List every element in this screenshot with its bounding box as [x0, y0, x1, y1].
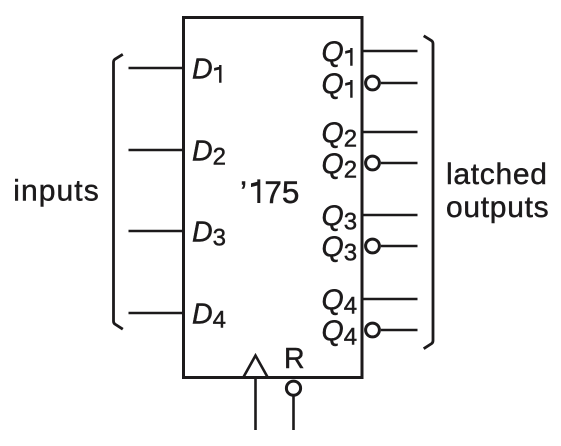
IC body U1 ('175 quad D flip-flop)	[184, 18, 363, 378]
wire Q1 output	[362, 50, 418, 52]
svg-text:Q: Q	[322, 200, 344, 232]
svg-text:Q: Q	[322, 284, 344, 316]
wire D2 input	[129, 149, 184, 151]
svg-text:Q: Q	[322, 148, 344, 180]
svg-text:4: 4	[344, 293, 357, 320]
wire D4 input	[129, 312, 184, 314]
svg-text:Q: Q	[322, 68, 344, 100]
wire Q4 output	[362, 298, 418, 300]
svg-text:inputs: inputs	[13, 175, 100, 208]
wire Q2-bar output	[381, 162, 418, 164]
svg-text:Q: Q	[322, 231, 344, 263]
wire D1 input	[129, 67, 184, 69]
left bracket grouping inputs	[114, 54, 123, 329]
svg-text:75: 75	[264, 174, 299, 210]
wire Q3 output	[362, 214, 418, 216]
svg-text:R: R	[284, 343, 305, 375]
bubble Q3-bar (inversion circle)	[366, 239, 380, 253]
svg-text:latched: latched	[446, 158, 548, 191]
svg-text:3: 3	[213, 225, 226, 252]
svg-text:D: D	[192, 53, 213, 85]
svg-text:2: 2	[213, 144, 226, 171]
svg-text:3: 3	[344, 209, 357, 236]
wire Q2 output	[362, 131, 418, 133]
svg-text:outputs: outputs	[446, 191, 549, 224]
svg-text:Q: Q	[322, 117, 344, 149]
wire Q1-bar output	[381, 82, 418, 84]
svg-text:D: D	[192, 298, 213, 330]
bubble R (inversion circle)	[286, 381, 300, 395]
svg-text:Q: Q	[322, 36, 344, 68]
svg-text:D: D	[192, 135, 213, 167]
bubble Q2-bar (inversion circle)	[366, 156, 380, 170]
wire clock input	[254, 379, 257, 430]
svg-text:2: 2	[344, 157, 357, 184]
wire R input	[292, 396, 295, 430]
clock input edge triangle	[244, 356, 268, 378]
svg-text:3: 3	[344, 240, 357, 267]
svg-text:2: 2	[344, 126, 357, 153]
wire Q3-bar output	[381, 245, 418, 247]
right bracket grouping latched outputs	[424, 36, 433, 349]
bubble Q4-bar (inversion circle)	[366, 323, 380, 337]
wire D3 input	[129, 230, 184, 232]
wire Q4-bar output	[381, 329, 418, 331]
bubble Q1-bar (inversion circle)	[366, 76, 380, 90]
svg-text:Q: Q	[322, 315, 344, 347]
svg-text:4: 4	[213, 307, 226, 334]
svg-text:’: ’	[240, 174, 247, 210]
svg-text:D: D	[192, 216, 213, 248]
svg-text:4: 4	[344, 324, 357, 351]
